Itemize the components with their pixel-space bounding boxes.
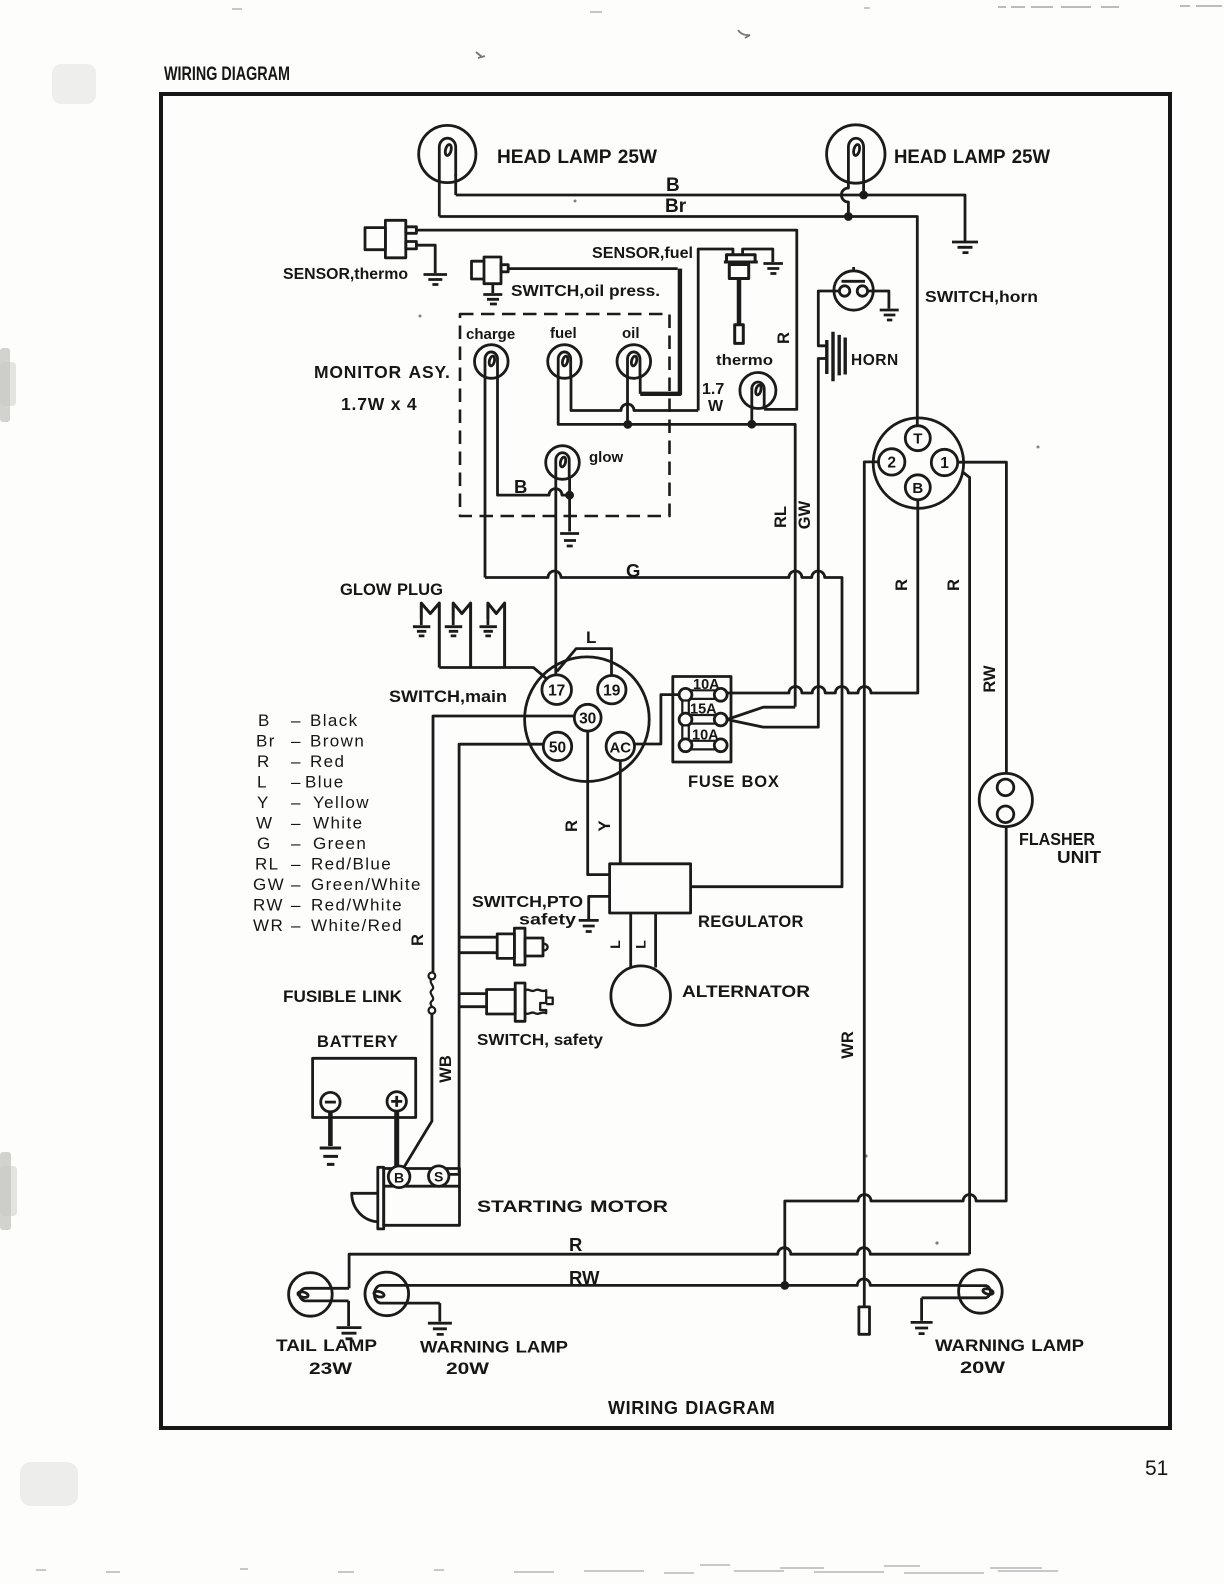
svg-text:fuel: fuel [550, 325, 577, 342]
fuse link bar left col lower [682, 725, 689, 739]
svg-text:AC: AC [609, 739, 631, 756]
switch horn [834, 267, 873, 310]
fuse 10A top [679, 688, 727, 701]
wire H2 (W): fuel left lead to RL corner [558, 376, 795, 707]
svg-text:GLOW PLUG: GLOW PLUG [340, 580, 443, 599]
switch main body [525, 657, 650, 782]
fuse link bar left col upper [682, 701, 689, 715]
svg-text:S: S [434, 1169, 443, 1185]
ground for B wire [952, 242, 978, 253]
wire: flasher out down, left over WR and R, down to RW bus [785, 827, 1006, 1286]
glow plug 1 [421, 603, 439, 667]
scan artifacts [232, 6, 1222, 1245]
wire: right warning lamp lower lead to ground [920, 1298, 923, 1321]
wire: oil right lead (thick corner) [639, 376, 642, 394]
wire G: to right with hops, down to regulator [485, 571, 842, 887]
svg-text:15A: 15A [690, 702, 717, 718]
svg-text:FUSIBLE LINK: FUSIBLE LINK [283, 988, 402, 1006]
main border frame [161, 94, 1170, 1428]
wire: pin 30 down to regulator [588, 731, 610, 875]
svg-text:R: R [945, 579, 963, 591]
switch main pin 17 [542, 675, 572, 705]
svg-text:GW: GW [796, 500, 814, 529]
wire: glow plug bus to switch pin 17 [439, 668, 547, 680]
head lamp 1 [419, 125, 476, 182]
svg-text:B: B [912, 480, 923, 497]
monitor lamp fuel [548, 345, 582, 379]
svg-text:51: 51 [1145, 1457, 1168, 1480]
wire: sensor thermo upper pin to R vertical to thermo lamp [416, 230, 796, 409]
wire: lamp2 left lead hops B joins Br [841, 178, 848, 217]
svg-text:RW: RW [569, 1267, 600, 1288]
wire: oil press switch stem to ground [491, 284, 494, 293]
switch safety [487, 983, 553, 1021]
svg-text:HEAD LAMP 25W: HEAD LAMP 25W [497, 147, 657, 168]
connector pin 1 [931, 449, 957, 475]
svg-text:WARNING LAMP: WARNING LAMP [935, 1336, 1084, 1355]
wire: thermo right lead [763, 405, 766, 409]
monitor lamp oil [617, 345, 651, 379]
svg-text:SENSOR,thermo: SENSOR,thermo [283, 266, 408, 283]
svg-text:–: – [291, 793, 302, 812]
ground tail lamp [337, 1328, 362, 1339]
head lamp 2 [827, 125, 885, 183]
svg-text:BATTERY: BATTERY [317, 1033, 399, 1051]
wire: lamp1 left lead to Br wire [438, 176, 441, 217]
svg-text:RL: RL [772, 506, 790, 528]
svg-text:Blue: Blue [305, 773, 345, 792]
svg-text:SWITCH,main: SWITCH,main [389, 688, 507, 706]
svg-text:RW: RW [253, 896, 284, 915]
svg-text:L: L [257, 773, 268, 792]
warning lamp left [365, 1272, 440, 1316]
sensor fuel [724, 255, 758, 344]
wire RW bus: warning lamp to right warning lamp [408, 1279, 959, 1285]
svg-text:White: White [313, 814, 363, 833]
wire: lamp1 right lead to B wire [454, 174, 457, 195]
svg-text:–: – [291, 834, 302, 853]
svg-text:50: 50 [549, 739, 566, 756]
wire: pin1 to RW vertical [958, 462, 1007, 774]
horn [827, 332, 845, 382]
battery minus terminal [321, 1092, 340, 1111]
svg-text:TAIL LAMP: TAIL LAMP [276, 1336, 377, 1355]
svg-text:SWITCH,horn: SWITCH,horn [925, 289, 1038, 306]
ground warning lamp left [428, 1323, 452, 1334]
svg-text:safety: safety [519, 912, 576, 929]
wire: pin2 to WR vertical down to terminal [864, 462, 878, 1307]
svg-text:23W: 23W [309, 1359, 353, 1378]
svg-text:1: 1 [940, 455, 949, 472]
switch main pin AC [606, 732, 634, 760]
wire: lamp2 right lead joins B [862, 178, 865, 195]
switch oil press [472, 257, 509, 284]
starting motor terminal B [388, 1166, 410, 1188]
wire: tail lamp lower lead to ground [347, 1301, 350, 1326]
ground sensor thermo [424, 275, 448, 285]
wire: sensor thermo lower pin to ground [416, 245, 435, 273]
ground regulator [579, 920, 599, 931]
svg-text:B: B [258, 711, 271, 730]
svg-text:Red/White: Red/White [311, 896, 403, 915]
svg-text:charge: charge [466, 326, 515, 343]
wire RL: fuse 15A fan up-right [727, 707, 795, 719]
svg-text:Black: Black [310, 711, 359, 730]
svg-text:R: R [257, 752, 271, 771]
wire Br: horizontal then down to connector T [439, 217, 917, 426]
svg-text:–: – [291, 732, 302, 751]
svg-text:B: B [514, 476, 527, 497]
alternator [611, 966, 671, 1026]
node: lamp2-B junction [861, 192, 867, 198]
glow plug 3 [488, 603, 505, 667]
svg-text:GW: GW [253, 875, 285, 894]
wire R bus: tail lamp up, right, to connector R drop [349, 1248, 970, 1289]
svg-text:B: B [394, 1169, 404, 1185]
svg-text:Y: Y [257, 793, 270, 812]
connector pin T [905, 426, 930, 451]
svg-text:20W: 20W [446, 1359, 490, 1378]
svg-text:–: – [291, 896, 302, 915]
svg-text:L: L [633, 940, 649, 949]
ground battery [320, 1148, 341, 1164]
wire H1: fuel right lead to sensor-fuel riser [571, 376, 698, 411]
warning lamp right [922, 1270, 1003, 1314]
svg-text:Green/White: Green/White [311, 875, 422, 894]
svg-text:20W: 20W [960, 1358, 1006, 1377]
svg-text:–: – [291, 752, 302, 771]
alternator leads [631, 913, 656, 968]
svg-text:10A: 10A [693, 677, 720, 693]
node: oil lead on H2 [625, 421, 631, 427]
wire: oil left lead crosses H1 joins H2 [626, 376, 629, 424]
svg-text:Y: Y [596, 820, 614, 831]
node: lamp2-Br junction [845, 214, 851, 220]
tail lamp [289, 1273, 350, 1317]
svg-text:1.7: 1.7 [702, 381, 724, 398]
fuse 15A middle [679, 713, 727, 726]
node: RW drop joins RW bus [782, 1282, 788, 1288]
wire: glow left lead down to switch pin 17, hops B and G [554, 477, 557, 676]
wire: regulator ground [589, 896, 610, 919]
svg-text:FLASHER: FLASHER [1019, 829, 1095, 849]
wire L: pin 19 to pin 17 loop [557, 649, 612, 676]
wire: pin 50 left and down to PTO switch [449, 744, 543, 1174]
svg-text:10A: 10A [692, 728, 719, 744]
glow plug 1 ground [413, 619, 430, 636]
switch main pin 30 [574, 704, 601, 731]
wire: charge right lead to B, hop glow-left, join glow right [498, 376, 570, 495]
switch main pin 50 [543, 732, 571, 760]
wire Y: pin AC down to regulator [619, 761, 622, 864]
svg-text:R: R [775, 332, 793, 344]
svg-text:G: G [626, 560, 640, 581]
monitor assy dashed box [460, 314, 670, 516]
svg-text:G: G [257, 834, 272, 853]
svg-text:1.7W x 4: 1.7W x 4 [341, 394, 417, 414]
svg-text:–: – [291, 711, 302, 730]
battery plus terminal [387, 1092, 406, 1111]
svg-text:B: B [666, 175, 680, 196]
starting motor terminal S [429, 1166, 449, 1186]
ground glow lamp [560, 534, 579, 547]
wire: fuel lamp to sensor fuel left pin [698, 249, 733, 411]
svg-text:–: – [291, 773, 302, 792]
monitor lamp charge [475, 345, 509, 379]
switch main pin 19 [598, 676, 626, 704]
terminal block at WR end [859, 1307, 870, 1334]
svg-text:Br: Br [665, 196, 687, 217]
fuse box body [673, 677, 731, 763]
regulator box [610, 864, 691, 913]
node: B to glow right lead [567, 492, 573, 498]
svg-text:SWITCH,oil press.: SWITCH,oil press. [511, 283, 660, 300]
svg-text:WARNING LAMP: WARNING LAMP [420, 1338, 568, 1357]
connector pin 2 [879, 449, 905, 475]
svg-text:–: – [291, 855, 302, 874]
svg-text:L: L [586, 628, 596, 647]
glow plug 3 ground [480, 619, 497, 636]
connector pin B [905, 475, 930, 500]
svg-text:WR: WR [839, 1031, 857, 1059]
svg-text:30: 30 [579, 711, 596, 728]
svg-text:R: R [409, 934, 427, 946]
battery minus lead to ground [328, 1112, 333, 1146]
sensor thermo [365, 220, 416, 257]
flasher unit [979, 773, 1032, 826]
wire B: horizontal to right then ground [456, 195, 965, 241]
svg-text:HORN: HORN [851, 352, 899, 369]
svg-text:2: 2 [887, 455, 896, 472]
wire: pin AC right to fuse box bus [635, 695, 680, 744]
battery plus lead to starting motor B [394, 1111, 399, 1167]
svg-text:SWITCH, safety: SWITCH, safety [477, 1032, 603, 1049]
svg-text:WIRING DIAGRAM: WIRING DIAGRAM [164, 64, 290, 85]
svg-text:MONITOR ASY.: MONITOR ASY. [314, 362, 451, 382]
wire: horn switch left to horn upper [818, 291, 839, 346]
switch PTO safety [497, 928, 547, 965]
svg-text:17: 17 [548, 683, 565, 700]
svg-text:UNIT: UNIT [1057, 847, 1101, 867]
wire: pin 30 left to R drop, fusible link [433, 716, 574, 973]
svg-text:WIRING DIAGRAM: WIRING DIAGRAM [608, 1398, 775, 1418]
svg-text:STARTING MOTOR: STARTING MOTOR [477, 1198, 668, 1216]
svg-text:RL: RL [255, 855, 280, 874]
svg-text:–: – [291, 814, 302, 833]
svg-text:ALTERNATOR: ALTERNATOR [682, 983, 810, 1001]
svg-text:Yellow: Yellow [313, 793, 370, 812]
connector 4P [873, 418, 963, 508]
ground horn switch [880, 310, 899, 320]
ground sensor fuel [763, 264, 783, 274]
svg-text:Brown: Brown [310, 732, 365, 751]
ground warning lamp right [911, 1322, 933, 1333]
svg-text:SWITCH,PTO: SWITCH,PTO [472, 894, 583, 911]
thermo lamp [740, 373, 776, 409]
svg-text:RW: RW [981, 665, 999, 693]
battery box [313, 1058, 416, 1117]
starting motor body [352, 1167, 460, 1229]
svg-text:R: R [563, 820, 581, 832]
wire: warning lamp lower lead to ground [438, 1303, 441, 1321]
wire: thermo left lead [750, 405, 753, 424]
wire R: connector edge tangent down to bottom R bus [963, 472, 970, 1254]
legend colour code table [253, 711, 422, 935]
svg-text:WR: WR [253, 916, 284, 935]
fuse 10A bottom [679, 739, 727, 752]
wire: horn switch right to ground [868, 291, 889, 309]
svg-text:W: W [708, 398, 724, 415]
svg-text:Green: Green [313, 834, 367, 853]
svg-text:Red: Red [310, 752, 345, 771]
svg-text:White/Red: White/Red [311, 916, 403, 935]
svg-text:19: 19 [603, 683, 621, 700]
glow plug 2 [453, 603, 470, 667]
svg-text:WB: WB [437, 1055, 455, 1083]
svg-text:–: – [291, 875, 302, 894]
svg-text:glow: glow [589, 449, 623, 466]
monitor lamp glow [546, 446, 580, 480]
svg-text:SENSOR,fuel: SENSOR,fuel [592, 245, 693, 262]
svg-text:oil: oil [622, 325, 640, 342]
wire: glow right lead, to ground [568, 477, 571, 532]
svg-text:R: R [569, 1234, 582, 1255]
svg-text:–: – [291, 916, 302, 935]
svg-text:FUSE BOX: FUSE BOX [688, 773, 780, 791]
ground oil press switch [483, 295, 502, 305]
svg-text:REGULATOR: REGULATOR [698, 913, 804, 931]
fusible link [431, 979, 434, 1007]
wire: pin B down, left with hops, from fuse 10A top [727, 500, 918, 693]
node: thermo left lead on H2 [749, 421, 755, 427]
svg-text:Br: Br [256, 732, 276, 751]
wire: charge left lead down to G wire [484, 376, 487, 578]
wire: oil press switch to oil lamp (thick) [508, 267, 678, 270]
svg-text:Red/Blue: Red/Blue [311, 855, 392, 874]
wire GW: horn lower terminal down to fuse 15A [727, 359, 827, 728]
wire: fusible link to starting motor B [404, 1014, 432, 1168]
svg-text:thermo: thermo [716, 353, 773, 369]
svg-text:R: R [893, 579, 911, 591]
svg-text:W: W [256, 814, 273, 833]
svg-text:L: L [607, 940, 623, 949]
wire: sensor fuel right pin to ground [743, 249, 773, 262]
svg-text:T: T [913, 431, 922, 448]
svg-text:HEAD LAMP 25W: HEAD LAMP 25W [894, 147, 1050, 168]
glow plug 2 ground [445, 619, 462, 636]
